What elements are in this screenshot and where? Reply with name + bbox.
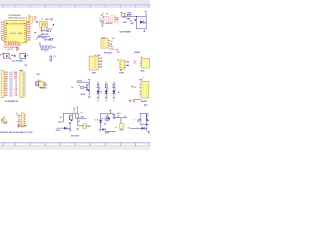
node stub block1 bbox=[60, 121, 64, 123]
svg-text:BUZZER: BUZZER bbox=[40, 88, 47, 90]
wire block1 left bbox=[62, 113, 64, 122]
connector J4 body bbox=[21, 113, 24, 127]
J6 inner rows bbox=[120, 61, 122, 69]
power T3 right bbox=[145, 11, 147, 14]
connector J5 body bbox=[89, 56, 98, 70]
power T block2 bbox=[76, 107, 78, 114]
resistor R4 bbox=[81, 87, 84, 89]
wire rst bbox=[44, 35, 50, 37]
svg-text:TXD: TXD bbox=[99, 64, 102, 66]
junction dot bbox=[136, 16, 137, 17]
frame top border bbox=[0, 4, 150, 7]
node dot bbox=[28, 21, 29, 22]
svg-text:OLED: OLED bbox=[140, 70, 144, 72]
svg-text:100n: 100n bbox=[11, 55, 14, 57]
svg-text:MODULE: MODULE bbox=[134, 52, 140, 54]
svg-text:MOSI: MOSI bbox=[17, 122, 21, 124]
wire block3 left vert bbox=[99, 114, 101, 120]
svg-text:D9: D9 bbox=[60, 117, 62, 119]
diode D7 base bbox=[64, 127, 70, 130]
svg-text:5V: 5V bbox=[130, 21, 132, 23]
svg-text:TXO1: TXO1 bbox=[5, 72, 9, 74]
svg-text:GN: GN bbox=[1, 31, 3, 33]
svg-text:RXD: RXD bbox=[99, 67, 102, 69]
transistor Q5 bbox=[146, 113, 149, 124]
resistor R5 vertical bbox=[75, 114, 78, 118]
svg-text:UGND: UGND bbox=[123, 22, 127, 24]
connector J3 body bbox=[20, 70, 23, 98]
svg-text:IN: IN bbox=[94, 120, 95, 122]
svg-text:D6: D6 bbox=[118, 92, 120, 94]
svg-text:1u: 1u bbox=[27, 55, 29, 57]
ground caps A bbox=[9, 58, 11, 59]
resistor R6 vertical bbox=[113, 114, 115, 118]
wire power vertical mid bbox=[135, 17, 137, 29]
svg-text:VC: VC bbox=[1, 24, 3, 26]
svg-text:VCC FILTER: VCC FILTER bbox=[12, 60, 23, 62]
J1 side dots bbox=[1, 121, 2, 122]
node dot base bbox=[137, 128, 138, 129]
power T VBUS bbox=[121, 12, 123, 17]
svg-text:GND: GND bbox=[99, 61, 102, 63]
svg-text:R5: R5 bbox=[81, 113, 83, 115]
node dot orange bbox=[97, 119, 98, 120]
IC1 right pin labels bbox=[28, 22, 31, 42]
capacitor group C12 C13 bbox=[20, 53, 26, 58]
wire block3 right bbox=[114, 117, 127, 119]
wire block4 bottom bbox=[140, 123, 148, 125]
svg-text:VCC: VCC bbox=[18, 117, 21, 119]
wire block3 led down bbox=[99, 123, 101, 129]
J4 pin numbers right bbox=[24, 114, 25, 126]
svg-text:S3: S3 bbox=[124, 116, 126, 118]
svg-text:p1: p1 bbox=[94, 58, 96, 60]
svg-text:PD0 PD1 PD2 PD3 PD5: PD0 PD1 PD2 PD3 PD5 bbox=[5, 45, 21, 47]
svg-text:BUZ: BUZ bbox=[37, 74, 40, 76]
transistor Q3 bbox=[69, 113, 72, 121]
capacitor C4 symbol bbox=[36, 21, 38, 24]
wire block3 bottom bbox=[105, 130, 116, 132]
IC1 inner right pin names bbox=[24, 23, 26, 41]
wire block3 top bbox=[100, 113, 114, 115]
wire block4 down right bbox=[146, 124, 148, 131]
X1 body part2 shield bbox=[110, 16, 115, 22]
svg-text:I2C: I2C bbox=[120, 70, 122, 72]
LED D8 bbox=[99, 118, 103, 123]
net stub K2 bbox=[117, 114, 119, 118]
IC1 left pins bbox=[3, 22, 4, 40]
relay coil gray bbox=[138, 119, 142, 121]
jumper J1 body bbox=[3, 118, 5, 122]
ground block2 bbox=[77, 128, 80, 130]
node bits right bbox=[53, 24, 54, 26]
button S2 body bbox=[83, 124, 86, 129]
frame bottom border bbox=[0, 142, 150, 146]
IC1 inner left pin names bbox=[5, 26, 7, 42]
svg-text:PD3: PD3 bbox=[71, 87, 74, 89]
svg-text:S2: S2 bbox=[78, 121, 80, 123]
wire block1 gnd stem bbox=[69, 124, 71, 130]
svg-text:X1: X1 bbox=[102, 13, 104, 15]
page background bbox=[0, 0, 150, 150]
J2 pin name labels bbox=[5, 72, 9, 97]
IC1 pin1 mark bbox=[6, 23, 8, 25]
capacitor C8 bbox=[50, 38, 53, 40]
ground J4 bbox=[17, 125, 20, 127]
svg-text:KEY2: KEY2 bbox=[120, 130, 124, 132]
wire usb left stack bbox=[100, 20, 104, 24]
svg-text:DTR C7: DTR C7 bbox=[42, 38, 47, 40]
node bits usb4 bbox=[116, 21, 118, 23]
resistor R3 right bbox=[44, 82, 47, 86]
connector J3 pin labels bbox=[14, 71, 18, 97]
svg-text:P6: P6 bbox=[1, 22, 3, 24]
IC1 right pins bbox=[27, 22, 28, 40]
svg-text:KEY1: KEY1 bbox=[81, 117, 85, 119]
wire crystal ground stem bbox=[40, 27, 43, 30]
svg-text:PWR: PWR bbox=[3, 123, 6, 125]
svg-text:PD7: PD7 bbox=[28, 33, 31, 35]
power T block3 bbox=[109, 110, 111, 114]
svg-text:J6: J6 bbox=[117, 59, 119, 61]
svg-text:USB POWER: USB POWER bbox=[120, 31, 132, 33]
ground caps mid red bbox=[14, 55, 16, 58]
svg-text:RST: RST bbox=[53, 47, 56, 49]
svg-text:PB5: PB5 bbox=[28, 29, 31, 31]
power T tofu-left bbox=[39, 43, 41, 46]
svg-text:SPI PORT X: SPI PORT X bbox=[104, 52, 112, 54]
X1 body part1 bbox=[104, 16, 109, 23]
svg-text:PD6: PD6 bbox=[28, 35, 31, 37]
svg-text:GND: GND bbox=[5, 79, 8, 81]
module U3 left labels bbox=[134, 60, 136, 64]
power T caps bbox=[0, 54, 2, 55]
svg-text:SCK: SCK bbox=[18, 119, 21, 121]
wire base bbox=[84, 86, 87, 88]
wire block2 mid bbox=[78, 117, 87, 119]
power T block1 bbox=[73, 108, 75, 114]
IC1 inner bottom pin numbers bbox=[8, 41, 17, 42]
ground block4 blue bbox=[147, 131, 149, 133]
J4 pin labels bbox=[17, 115, 21, 128]
wire j8 stub bbox=[109, 48, 114, 51]
connector J6 body bbox=[120, 60, 125, 69]
svg-text:D+: D+ bbox=[1, 29, 3, 31]
ground blockA bbox=[88, 96, 91, 98]
svg-text:p3: p3 bbox=[103, 45, 105, 47]
svg-text:IC1 MEGA32U4: IC1 MEGA32U4 bbox=[8, 14, 20, 17]
svg-text:16MHz: 16MHz bbox=[45, 19, 50, 21]
buzzer BZ1 body bbox=[39, 82, 44, 88]
svg-text:PORT2: PORT2 bbox=[119, 72, 124, 74]
wire usb right bbox=[115, 17, 119, 20]
wire block2 vert bbox=[77, 118, 79, 126]
capacitor C3 body bbox=[29, 16, 32, 23]
J8 inner rows bbox=[103, 40, 105, 47]
svg-text:PB6: PB6 bbox=[28, 27, 31, 29]
J5 pins and net labels bbox=[98, 58, 102, 69]
J4 orange mark bbox=[22, 125, 24, 127]
connector J2 body bbox=[1, 70, 4, 97]
wire power top bbox=[122, 16, 147, 18]
wire block1 top bbox=[63, 112, 74, 114]
resistor R1 bbox=[39, 36, 42, 38]
svg-text:C10 C13: C10 C13 bbox=[8, 49, 14, 51]
svg-text:GND: GND bbox=[5, 76, 8, 78]
svg-text:BY SW RST: BY SW RST bbox=[41, 49, 49, 51]
svg-text:D16: D16 bbox=[15, 95, 18, 97]
IC1 left pin labels bbox=[1, 22, 4, 42]
wire crystal right stub bbox=[46, 27, 49, 29]
svg-text:VCC: VCC bbox=[53, 56, 56, 58]
diode D10 bbox=[142, 127, 147, 130]
connector J8 body bbox=[101, 39, 108, 49]
switch S1 bbox=[36, 36, 40, 38]
top gray margin bbox=[0, 0, 150, 4]
S3 red dot bbox=[116, 127, 117, 128]
svg-text:VB: VB bbox=[1, 35, 3, 37]
svg-text:GND: GND bbox=[87, 126, 90, 128]
IC1 MCU body bbox=[4, 21, 27, 43]
J8 net labels bbox=[110, 41, 113, 45]
J3 net column bbox=[23, 72, 25, 98]
svg-text:VCC: VCC bbox=[99, 58, 102, 60]
wire block4 left vert bbox=[139, 113, 141, 124]
node bits usb bbox=[102, 17, 104, 18]
svg-text:IN2: IN2 bbox=[128, 128, 130, 130]
svg-text:RXL: RXL bbox=[117, 52, 120, 54]
svg-text:SCK: SCK bbox=[110, 41, 113, 43]
svg-text:RST: RST bbox=[14, 76, 17, 78]
svg-text:MO: MO bbox=[116, 49, 118, 51]
svg-text:VCC: VCC bbox=[34, 17, 37, 19]
power T2 bbox=[124, 13, 126, 17]
svg-text:SW1: SW1 bbox=[44, 51, 47, 53]
wire blockA top bbox=[76, 81, 89, 83]
J7 inner pin rows bbox=[143, 83, 148, 96]
svg-text:VCC: VCC bbox=[134, 87, 137, 89]
bottom gray margin bbox=[0, 146, 150, 150]
svg-text:VCC: VCC bbox=[14, 79, 17, 81]
svg-text:GND: GND bbox=[130, 23, 133, 25]
resistor R2 red bbox=[16, 47, 19, 50]
power T mid bbox=[34, 32, 36, 34]
ground block3 bbox=[99, 129, 102, 131]
J6 pins right labels bbox=[125, 61, 129, 68]
junction dot block4 bbox=[146, 124, 147, 125]
svg-text:ISP: ISP bbox=[25, 126, 27, 128]
button S3 body bbox=[120, 124, 124, 129]
capacitor C5 right bbox=[50, 18, 53, 21]
svg-text:p2: p2 bbox=[103, 43, 105, 45]
svg-text:Y1: Y1 bbox=[41, 19, 43, 21]
svg-text:p2: p2 bbox=[94, 61, 96, 63]
wire J7 bottom bbox=[133, 98, 141, 100]
IC1 bottom pins bbox=[8, 43, 19, 44]
svg-text:KEY2: KEY2 bbox=[117, 113, 121, 115]
wire block2 to button bbox=[78, 125, 84, 127]
power T buzzer bbox=[35, 82, 36, 83]
svg-text:MISO: MISO bbox=[110, 46, 113, 48]
svg-text:p1: p1 bbox=[103, 40, 105, 42]
svg-text:KEY SW IN: KEY SW IN bbox=[71, 136, 79, 138]
J3 top mark bbox=[20, 70, 22, 71]
svg-text:VC: VC bbox=[134, 60, 136, 62]
svg-text:RST 10k: RST 10k bbox=[43, 30, 49, 32]
ground usb bbox=[101, 25, 104, 27]
capacitor C14 bbox=[50, 56, 52, 61]
svg-text:VCC: VCC bbox=[112, 38, 115, 40]
diode D2 on vertical bbox=[134, 19, 136, 21]
svg-text:EXP: EXP bbox=[25, 65, 28, 67]
svg-text:MN: MN bbox=[106, 14, 108, 16]
power T block4 bbox=[133, 101, 135, 104]
power T blockA bbox=[88, 79, 90, 82]
svg-text:GN: GN bbox=[134, 63, 136, 65]
J2 net column bbox=[9, 72, 12, 98]
svg-text:VCC 5V: VCC 5V bbox=[77, 81, 82, 83]
diode D1 bbox=[127, 14, 132, 16]
svg-text:KEY B: KEY B bbox=[105, 132, 109, 134]
svg-text:B1: B1 bbox=[1, 40, 3, 42]
button S3 stub bbox=[120, 118, 122, 124]
capacitor group C10 C11 bbox=[3, 53, 9, 58]
svg-text:1u: 1u bbox=[34, 20, 36, 22]
ground block1 bbox=[69, 130, 72, 132]
svg-text:MOS N: MOS N bbox=[81, 94, 86, 96]
junction dot block1 bbox=[69, 122, 70, 123]
speaker SP1 left bits bbox=[36, 81, 39, 86]
ground crystal bbox=[40, 30, 43, 33]
diode D9 lower bbox=[102, 128, 105, 131]
svg-text:Q5: Q5 bbox=[137, 121, 139, 123]
wire block4 base left bbox=[131, 127, 142, 129]
svg-text:PC6: PC6 bbox=[28, 24, 31, 26]
svg-text:MINI-USB: MINI-USB bbox=[106, 23, 112, 25]
power sym bottom bbox=[143, 30, 145, 32]
svg-text:RESET SW: RESET SW bbox=[41, 34, 49, 36]
module U3 pins bbox=[140, 61, 142, 66]
transistor Q2 bbox=[87, 82, 90, 96]
section label reset tofu bbox=[41, 46, 56, 49]
svg-text:RXI0: RXI0 bbox=[5, 74, 8, 76]
svg-text:VCC: VCC bbox=[145, 104, 148, 106]
svg-text:K: K bbox=[134, 119, 135, 121]
LED D3 bbox=[140, 18, 144, 24]
wire power loop right bbox=[137, 14, 147, 29]
crystal Q1 body bbox=[40, 22, 48, 27]
svg-text:I/O EXPAND 24: I/O EXPAND 24 bbox=[5, 100, 19, 103]
svg-text:GND: GND bbox=[14, 74, 17, 76]
jumper J1 left blob bbox=[1, 119, 3, 121]
J5 inner pin names bbox=[94, 58, 96, 69]
connector J7 body bbox=[141, 81, 149, 98]
S2 pin marks bbox=[81, 125, 84, 128]
svg-text:GND HWB: GND HWB bbox=[44, 40, 51, 42]
J7 pins left bbox=[139, 84, 141, 94]
transistor Q4 circle bbox=[105, 114, 110, 121]
J8 pins right bbox=[108, 41, 110, 46]
wire block4 top bbox=[140, 112, 148, 114]
svg-text:p3: p3 bbox=[94, 64, 96, 66]
ground J7 bbox=[129, 99, 132, 103]
module U3 body bbox=[141, 58, 149, 68]
svg-text:B0: B0 bbox=[1, 38, 3, 40]
wire block1 bottom bbox=[57, 127, 65, 129]
power T J7 bbox=[131, 86, 133, 88]
svg-text:D15: D15 bbox=[15, 90, 18, 92]
wire caps left bbox=[2, 53, 4, 55]
